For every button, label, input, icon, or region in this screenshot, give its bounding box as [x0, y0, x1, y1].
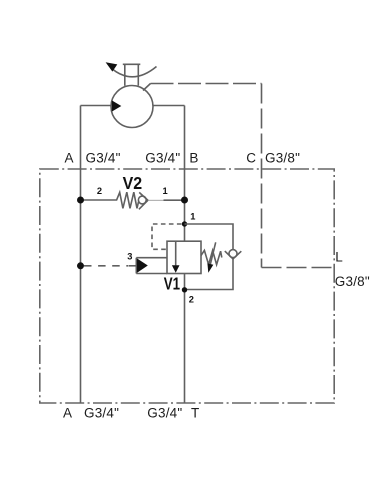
- svg-text:V1: V1: [164, 274, 181, 294]
- svg-text:1: 1: [163, 186, 168, 196]
- svg-text:1: 1: [190, 211, 195, 221]
- motor M1 flow-direction triangle: [112, 100, 122, 111]
- node: junction dot A-line / pilot: [77, 262, 84, 269]
- enclosure boundary (valve block, dash-dot): [40, 169, 334, 403]
- check valve V2 ball: [138, 196, 146, 204]
- svg-text:L: L: [335, 250, 343, 265]
- svg-text:G3/4": G3/4": [84, 406, 119, 421]
- svg-text:G3/8": G3/8": [265, 151, 300, 166]
- svg-text:2: 2: [97, 186, 102, 196]
- relief valve V1 body box: [167, 241, 201, 273]
- node 2: junction dot on T line: [182, 287, 187, 292]
- svg-text:3: 3: [127, 252, 132, 262]
- relief valve V1 adjustment arrow: [210, 242, 215, 264]
- node: junction dot A-line / V2: [77, 197, 84, 204]
- svg-text:A: A: [63, 406, 72, 421]
- motor M1 shaft: [123, 64, 141, 85]
- svg-text:G3/4": G3/4": [145, 151, 180, 166]
- svg-text:C: C: [246, 151, 256, 166]
- check valve C1 ball: [229, 250, 237, 258]
- wire: right bypass branch bottom: [185, 259, 234, 290]
- wire: motor left connection: [81, 105, 112, 107]
- svg-text:T: T: [191, 406, 199, 421]
- svg-text:G3/4": G3/4": [147, 406, 182, 421]
- motor M1 rotation arrowhead: [106, 62, 118, 71]
- wire: motor case drain to port C / L (dashed): [143, 84, 151, 91]
- wire: internal pilot from node 1 (dashed, stepped): [152, 224, 182, 249]
- node: junction dot B-line / V2: [181, 197, 188, 204]
- wire: port B / T vertical line: [184, 106, 186, 404]
- svg-text:2: 2: [189, 294, 194, 304]
- wire: right bypass branch top: [185, 224, 234, 250]
- check valve V2 seat: [139, 192, 148, 209]
- relief valve V1 pilot duct (port 3 channel): [136, 258, 167, 274]
- check valve C1 seat: [225, 251, 242, 259]
- relief valve V1 pilot triangle (port 3): [137, 258, 148, 273]
- motor M1 body circle: [111, 86, 153, 128]
- svg-text:G3/8": G3/8": [335, 274, 370, 289]
- svg-text:B: B: [189, 151, 198, 166]
- svg-text:V2: V2: [123, 173, 143, 193]
- wire: port A vertical line: [80, 106, 82, 404]
- svg-text:G3/4": G3/4": [86, 151, 121, 166]
- svg-text:A: A: [65, 151, 74, 166]
- wire: motor right connection: [153, 105, 185, 107]
- node 1: junction dot on B line: [182, 221, 187, 226]
- wire: pilot line from A-line to port 3 (dashed): [84, 265, 129, 267]
- relief valve V1 internal flow arrow: [175, 241, 177, 265]
- motor M1 rotation direction arc: [112, 67, 157, 77]
- wire: V2 to port B line: [148, 199, 164, 201]
- check valve V2 spring: [81, 192, 139, 208]
- relief valve V1 spring: [201, 250, 222, 264]
